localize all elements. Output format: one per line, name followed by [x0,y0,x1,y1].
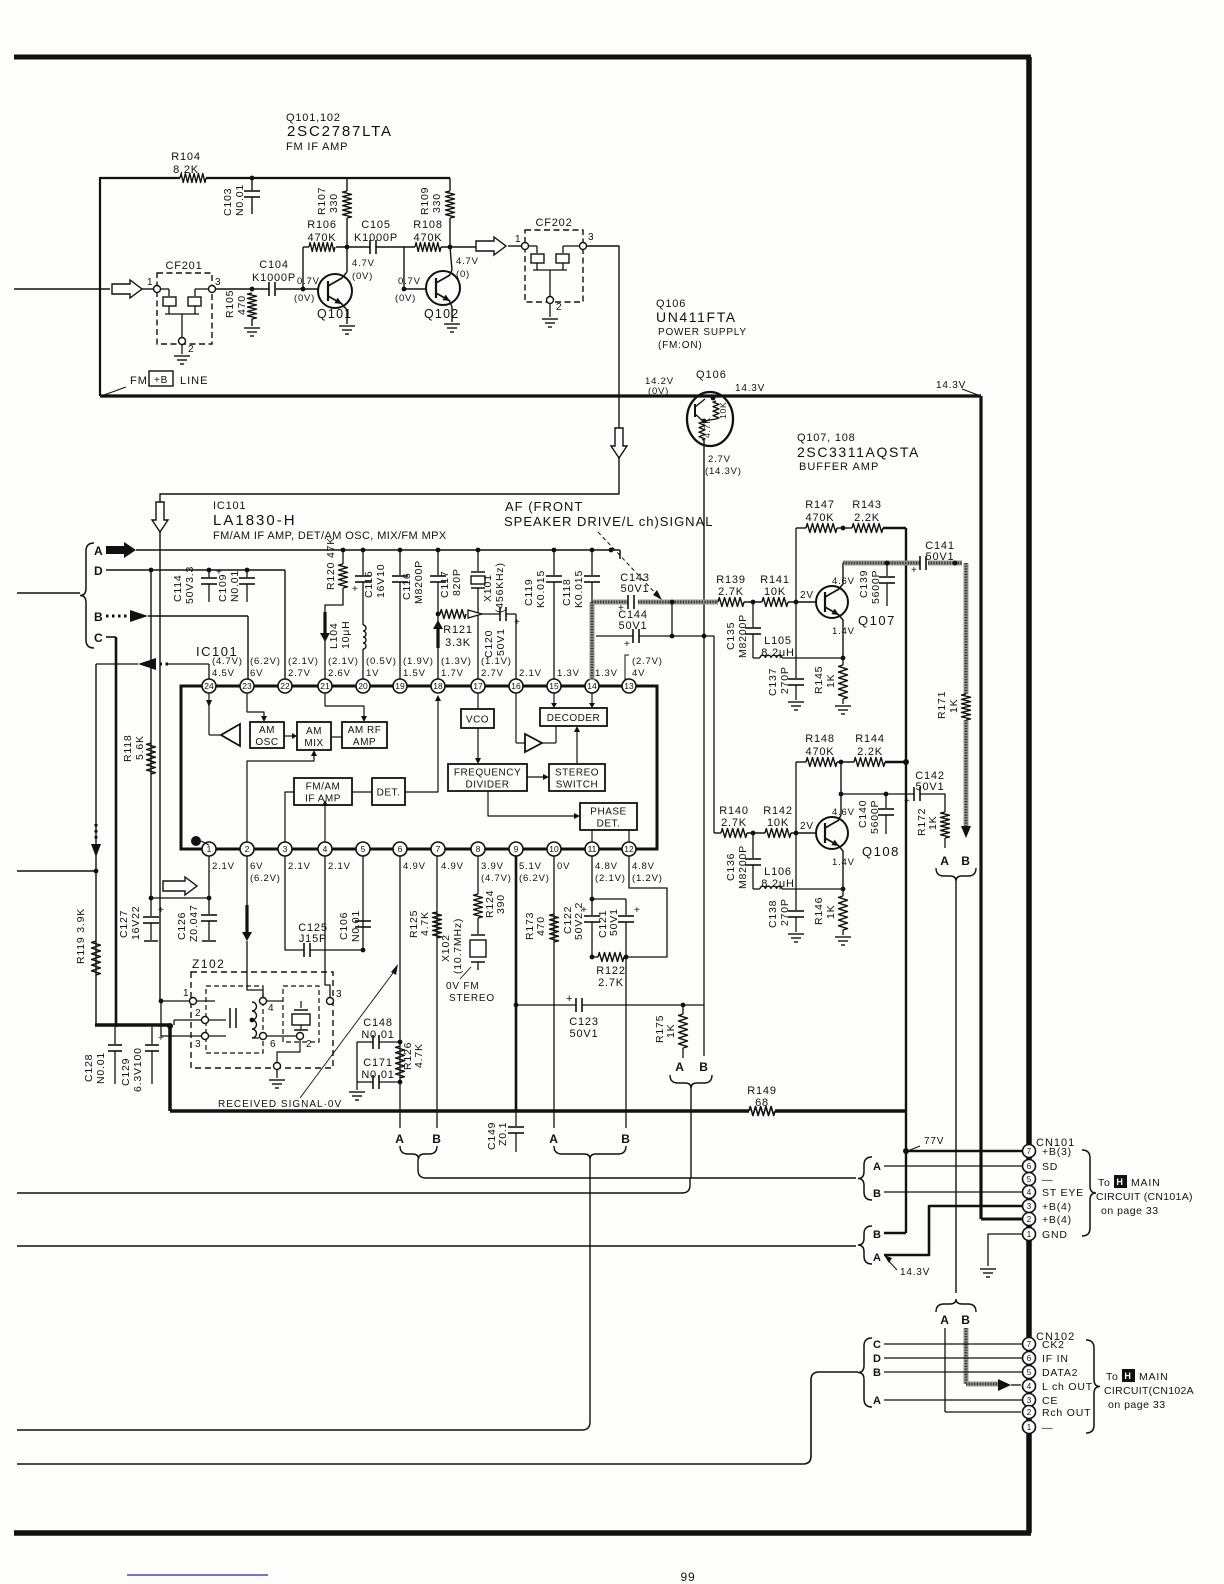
IC wire pin12 internal [628,830,630,842]
wire Q102 base [404,288,426,290]
svg-text:1: 1 [1027,1423,1032,1432]
svg-text:AM: AM [259,725,275,736]
svg-text:C119: C119 [523,578,535,606]
pin Z102 common [274,1063,281,1070]
svg-text:FREQUENCY: FREQUENCY [454,768,521,779]
wire received-signal leader [300,964,398,1098]
svg-text:R149: R149 [747,1085,777,1097]
svg-text:Q108: Q108 [862,844,900,859]
filter CF202 [525,217,583,302]
svg-text:R143: R143 [852,499,882,511]
IC wire pin23 to AM OSC [247,693,267,722]
resistor R149 [747,1085,777,1116]
transistor Q101 [317,274,352,321]
capacitor C106 [338,910,371,942]
wire Q108 collector [838,762,843,821]
transistor Q102 [424,271,460,321]
ground C126 [202,940,216,942]
svg-text:STEREO: STEREO [555,768,599,779]
svg-text:A: A [873,1395,882,1407]
resistor R109 [419,178,455,247]
svg-text:2: 2 [195,1008,201,1019]
svg-text:1: 1 [147,277,153,288]
wire pin6 column [399,856,401,1128]
svg-text:DIVIDER: DIVIDER [465,780,509,791]
svg-text:A: A [873,1252,882,1264]
svg-text:C123: C123 [569,1016,599,1028]
svg-text:14.3V: 14.3V [900,1267,930,1278]
svg-text:50V1: 50V1 [608,908,620,936]
IC block STEREO SWITCH [549,764,605,791]
svg-text:2: 2 [556,302,562,313]
svg-text:1: 1 [515,234,521,245]
svg-text:R142: R142 [763,805,793,817]
filter Z102 right box [283,986,319,1042]
wire AF hatched pin14 [590,602,595,680]
pin CF201-1 [147,277,161,293]
capacitor C117 [430,548,463,679]
svg-text:2.7K: 2.7K [598,977,624,989]
capacitor C129 [120,1027,165,1092]
pin CN101-6 [1023,1160,1059,1174]
svg-text:BUFFER AMP: BUFFER AMP [799,461,879,473]
capacitor C104 [252,259,296,296]
svg-text:1K: 1K [927,816,939,830]
svg-text:R119 3.9K: R119 3.9K [75,908,87,964]
svg-text:L106: L106 [764,866,792,878]
wire net B Q106 column [703,637,705,1056]
svg-text:AF (FRONT: AF (FRONT [505,499,583,514]
svg-text:3: 3 [1027,1396,1032,1405]
svg-text:R121: R121 [443,624,473,636]
svg-text:C148: C148 [363,1017,393,1029]
pin CN102-6 [1023,1352,1069,1366]
brace CN101 right [1082,1150,1096,1236]
svg-text:N0.01: N0.01 [350,910,362,942]
wire C137 column [795,528,797,678]
input signal arrow [112,280,142,298]
wire arrow to CF201 [142,288,153,290]
svg-text:CE: CE [1042,1395,1058,1407]
resistor R144 [854,733,885,767]
pin CN101-3 [1023,1200,1072,1214]
label net A split [940,1313,949,1327]
svg-text:C118: C118 [561,578,573,606]
label To H MAIN CN102 [1104,1369,1194,1411]
label 14.3V lower [884,1255,930,1278]
ground C171 [349,1092,365,1100]
pin CF202-2 [547,297,563,314]
label net B CN101 [873,1188,882,1200]
svg-text:B: B [699,1060,708,1074]
wire AGC bus [95,1023,749,1111]
svg-text:B: B [873,1188,882,1200]
svg-text:on page 33: on page 33 [1108,1399,1166,1411]
svg-text:A: A [675,1060,684,1074]
transistor Q108 [816,817,900,859]
label Q107 base voltage [800,590,814,601]
resistor R140 [714,805,749,838]
wire R108 to CF202 [441,246,476,248]
wire 906 rail lower [905,1111,907,1233]
svg-text:(1.3V): (1.3V) [441,656,472,667]
ground Q101 emitter [339,326,355,334]
svg-text:A: A [549,1132,558,1146]
svg-text:270P: 270P [779,666,791,694]
svg-text:4.9V: 4.9V [403,861,426,872]
svg-text:470K: 470K [308,232,337,244]
node R105 junction [250,287,255,292]
svg-text:19: 19 [395,681,405,691]
svg-text:Z0.047: Z0.047 [188,905,200,943]
wire R148-R144 [837,760,854,765]
IC block FREQUENCY DIVIDER [448,764,527,791]
resistor R104 [171,151,206,183]
svg-text:16V22: 16V22 [130,906,142,940]
svg-text:0V: 0V [557,861,570,872]
svg-text:3: 3 [336,989,342,1000]
svg-text:C106: C106 [338,912,350,940]
svg-text:14.3V: 14.3V [936,380,966,391]
svg-text:2.6V: 2.6V [328,668,351,679]
wire bottom border [14,1530,1031,1536]
wire Z102 common ground [276,1070,278,1078]
svg-text:R148: R148 [805,733,835,745]
svg-text:1.3V: 1.3V [595,668,618,679]
label RECEIVED SIGNAL [218,1099,342,1110]
wire R147-R143 [837,526,852,531]
svg-text:0V FM: 0V FM [446,981,479,992]
svg-text:14: 14 [587,681,597,691]
svg-text:5.1V: 5.1V [519,861,542,872]
svg-text:K1000P: K1000P [252,272,296,284]
brace AB split right [936,1299,976,1312]
svg-text:3.3K: 3.3K [445,637,471,649]
svg-text:N0.01: N0.01 [95,1052,107,1084]
brace CN101 BA lower [858,1226,872,1264]
svg-text:50V3.3: 50V3.3 [184,566,196,604]
svg-text:C103: C103 [222,188,234,216]
capacitor C119 [523,548,562,679]
resistor R148 [796,733,837,767]
svg-text:(6.2V): (6.2V) [250,656,281,667]
svg-text:8: 8 [476,844,481,854]
wire input bundle stem [17,592,80,594]
svg-text:10μH: 10μH [340,620,352,649]
svg-text:A: A [395,1132,404,1146]
svg-text:(2.1V): (2.1V) [288,656,319,667]
wire AB pin10-12 route [17,1159,590,1430]
capacitor C115 [352,548,387,625]
wire pin12 column [626,856,667,957]
label net A pin10 [549,1132,558,1146]
svg-text:IC101: IC101 [213,500,246,512]
label 14.3V rail right [936,380,978,395]
wire C105 to R108 [376,246,415,248]
svg-text:CF202: CF202 [535,217,572,229]
wire D to pin22 [284,570,286,679]
svg-text:LA1830-H: LA1830-H [213,512,297,529]
wire pin11 to C121 [592,898,626,900]
svg-text:R147: R147 [805,499,835,511]
svg-text:6: 6 [1027,1162,1032,1171]
svg-text:470: 470 [236,295,248,315]
svg-text:(2.7V): (2.7V) [632,656,663,667]
IC wire FREQ to STEREO [527,774,549,780]
svg-text:4: 4 [1027,1382,1032,1391]
pin Z102-2l [195,1008,209,1024]
wire R118 column [150,570,152,898]
signal arrow R121 [468,610,500,618]
svg-text:470K: 470K [806,746,835,758]
IC wire pin11 internal [591,830,593,842]
capacitor C120 [483,607,521,679]
label net B CN101 lower [873,1229,882,1241]
label Q101-102 title [286,112,393,153]
svg-text:(4.7V): (4.7V) [212,656,243,667]
resistor R141 [760,574,790,607]
svg-text:3.9V: 3.9V [481,861,504,872]
resistor R120 [325,537,348,679]
IC wire pin3 internal [285,792,294,842]
wire long left CN101-2 [17,1245,856,1247]
wire Z102 pin1 lead [159,999,189,1004]
svg-text:2.2K: 2.2K [854,512,880,524]
label To H MAIN CN101 [1096,1175,1193,1217]
wire pin9 column thick [515,856,518,1111]
svg-text:FM/AM: FM/AM [306,782,341,793]
capacitor C114 [172,566,223,604]
capacitor C125 [298,922,328,957]
label Q107 voltages [832,576,855,637]
label Q106 name [696,369,727,381]
capacitor C144 [618,609,648,650]
svg-text:50V1: 50V1 [570,1028,599,1040]
svg-text:6: 6 [270,1039,276,1050]
label Q102 collector voltage [456,256,479,280]
label net A R175 [675,1060,684,1074]
svg-text:99: 99 [681,1570,696,1584]
svg-text:2.7V: 2.7V [708,454,731,465]
pin IC101-20 [356,656,397,693]
svg-text:+: + [624,639,631,650]
svg-text:470: 470 [535,916,547,936]
svg-text:24: 24 [204,681,214,691]
label net A CN102 [873,1395,882,1407]
pin IC101-22 [278,656,319,693]
svg-text:C137: C137 [767,668,779,696]
svg-text:+B(4): +B(4) [1042,1201,1072,1213]
label Q107-108 title [797,432,920,473]
capacitor C142 [904,770,945,807]
pin CN102-7 [1023,1338,1065,1352]
ground Q102 emitter [444,324,460,332]
capacitor C109 [217,568,255,602]
connector CN102 label [1036,1331,1075,1343]
svg-text:K0.015: K0.015 [535,570,547,608]
svg-text:IF IN: IF IN [1042,1353,1069,1365]
label net B pin12 [621,1132,630,1146]
svg-text:SWITCH: SWITCH [556,780,598,791]
node AF collector junctions [885,561,958,566]
svg-text:AM RF: AM RF [348,725,382,736]
wire R106 bias drop [302,247,304,289]
svg-text:470K: 470K [806,512,835,524]
signal arrow AGC down [91,824,101,857]
wire R108 bias drop [403,247,405,289]
svg-text:A: A [940,854,949,868]
svg-text:50V1: 50V1 [926,551,955,563]
wire Q101 base [276,288,318,290]
pin CN101-5 [1023,1173,1054,1187]
wire pin7 column [436,856,438,1128]
svg-text:1: 1 [183,988,189,999]
svg-text:(2.1V): (2.1V) [328,656,359,667]
pin Z102-4 [260,998,275,1015]
label Q106 voltages left [645,376,674,397]
svg-text:+: + [158,1033,165,1044]
svg-text:A: A [873,1161,882,1173]
svg-text:18: 18 [433,681,443,691]
wire C to CK2 [884,1343,1022,1345]
svg-text:CIRCUIT(CN102A: CIRCUIT(CN102A [1104,1385,1194,1397]
svg-text:5.6K: 5.6K [134,735,146,760]
wire R119 column [95,664,97,1025]
svg-text:15: 15 [549,681,559,691]
wire top border [14,55,1031,60]
svg-text:X101: X101 [482,574,494,602]
pin IC101-5 [356,842,370,856]
svg-text:R108: R108 [413,219,443,231]
pin IC101-12 [622,842,663,884]
node A [94,542,620,558]
resistor R173 [524,912,559,942]
label Q102 base voltage [395,276,421,304]
svg-text:POWER SUPPLY: POWER SUPPLY [658,327,747,338]
resistor R172 [916,794,950,848]
wire D to IF IN [884,1357,1022,1359]
svg-text:270P: 270P [779,898,791,926]
ground R105 [244,328,260,336]
svg-text:2: 2 [306,1039,312,1050]
wire C138 column [795,762,797,910]
wire C144 line [596,634,714,639]
svg-text:1: 1 [1027,1230,1032,1239]
svg-text:D: D [873,1353,882,1365]
resistor R175 [654,1005,688,1058]
wire pin4 column [325,856,330,997]
resistor R108 [413,219,443,252]
IC wire FREQ to PHASE DET [488,791,580,819]
wire long left CN102 [17,1372,858,1464]
capacitor C141 [911,540,955,576]
svg-text:20: 20 [358,681,368,691]
svg-text:(0V): (0V) [352,271,373,282]
IC block DET [372,778,405,805]
svg-text:2.7K: 2.7K [718,586,744,598]
wire C drop bold [115,637,118,1027]
wire C125 to pin5 [310,948,365,953]
capacitor C118 [561,548,600,608]
pin CF201-2 [179,338,195,356]
svg-text:To: To [1106,1371,1119,1383]
wire B to DATA2 [884,1371,1022,1373]
svg-text:4.5V: 4.5V [212,668,235,679]
wire pin2 column [246,856,248,905]
label Q108 base voltage [800,821,814,832]
svg-text:(1.1V): (1.1V) [481,656,512,667]
svg-text:MAIN: MAIN [1139,1371,1168,1383]
wire pin11 column [591,856,593,899]
svg-text:4.8V: 4.8V [595,861,618,872]
svg-text:2.1V: 2.1V [328,861,351,872]
svg-text:Q107, 108: Q107, 108 [797,432,856,444]
wire Q107 collector rail [905,528,907,1111]
label pin13 bracket [625,655,629,679]
capacitor C148 [357,1017,400,1049]
resistor R126 [396,1042,426,1078]
wire pin24 output [96,658,209,679]
wire net A to Rch OUT [945,1328,1021,1412]
svg-text:C120: C120 [483,630,495,658]
wire R175Q106 stem [690,1088,692,1178]
wire pin10 column [553,856,555,1128]
svg-text:+B(3): +B(3) [1042,1146,1072,1158]
svg-text:3: 3 [215,277,221,288]
svg-text:B: B [621,1132,630,1146]
svg-text:(0.5V): (0.5V) [366,656,397,667]
pin CN102-2 [1023,1406,1092,1420]
svg-text:1: 1 [207,844,212,854]
wire B to rail906 [884,1232,906,1235]
wire pin2 to Z102-4 [247,941,263,997]
svg-text:6.3V100: 6.3V100 [132,1047,144,1092]
pin IC101-15 [547,668,580,693]
wire C148-C171 left [356,1042,358,1090]
resistor R107 [316,178,352,247]
pin Z102-3l [195,1033,209,1051]
svg-text:2: 2 [188,344,194,355]
pin CN102-5 [1023,1366,1079,1380]
signal arrow to CF202 [476,237,506,255]
svg-text:CF201: CF201 [165,260,202,272]
svg-text:R146: R146 [813,897,825,925]
wire FM +B rail 14.3V [100,396,981,1219]
label net A R172 [940,854,949,868]
filter Z102 left box [206,986,263,1053]
svg-text:C171: C171 [363,1057,393,1069]
svg-text:C104: C104 [259,259,289,271]
label net B hatched [961,854,970,868]
node C148 junction [398,1040,403,1045]
svg-text:N0.01: N0.01 [361,1029,394,1041]
svg-text:+: + [566,993,573,1005]
svg-text:C: C [94,631,103,645]
svg-text:6: 6 [398,844,403,854]
pin CN101-2 [1023,1213,1072,1227]
svg-text:B: B [873,1229,882,1241]
svg-text:1V: 1V [366,668,379,679]
inductor L104 [328,620,366,679]
svg-text:50V1: 50V1 [621,583,650,595]
node D [94,564,285,578]
capacitor C105 [354,219,398,254]
svg-text:C114: C114 [172,574,184,602]
resistor R106 [307,219,337,252]
svg-text:R145: R145 [813,666,825,694]
svg-text:2.1V: 2.1V [212,861,235,872]
svg-text:D: D [94,564,103,578]
